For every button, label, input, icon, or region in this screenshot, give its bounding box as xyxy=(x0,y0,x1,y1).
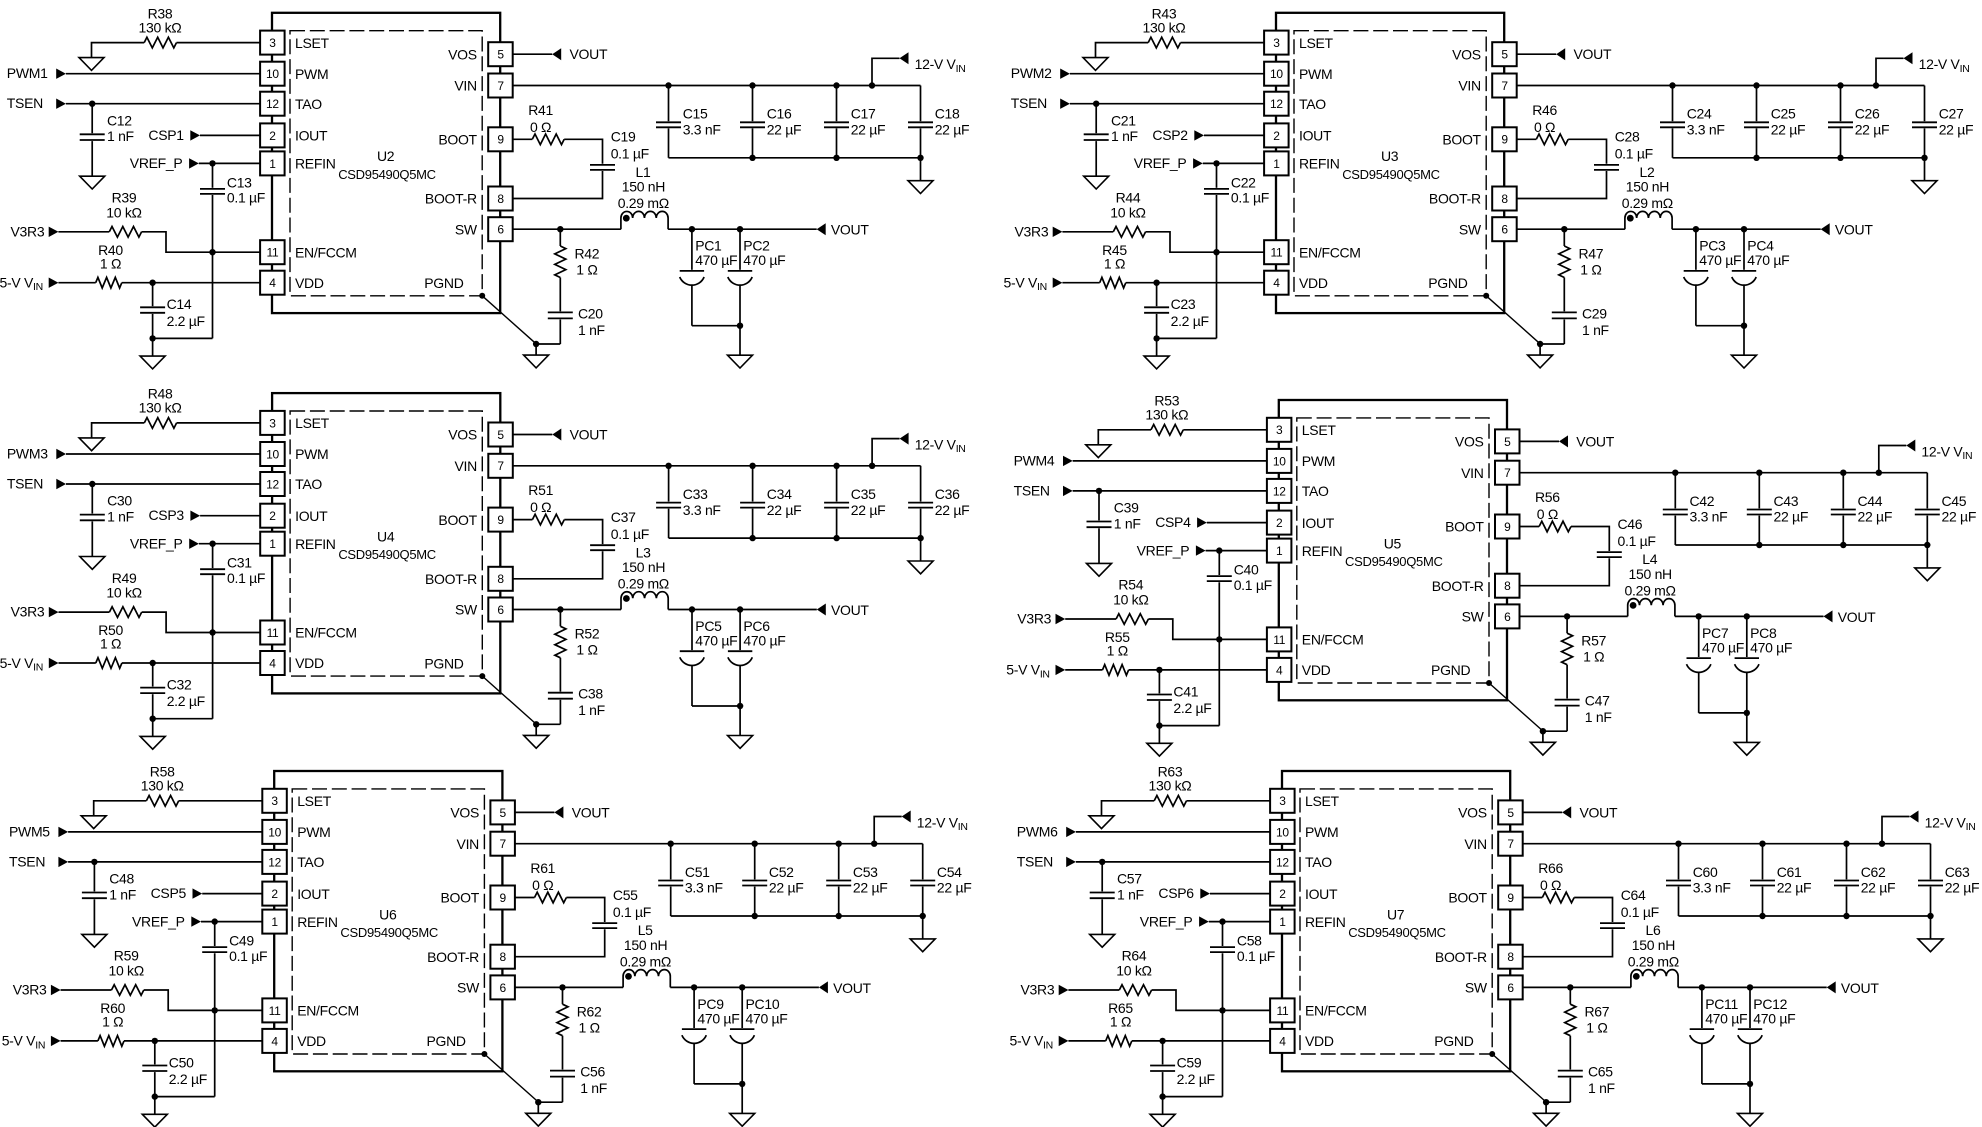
resistor R39 10 k&#937; xyxy=(106,190,141,238)
ground (PGND) xyxy=(524,724,549,748)
svg-text:VOUT: VOUT xyxy=(570,427,608,443)
svg-text:0 Ω: 0 Ω xyxy=(530,119,551,135)
svg-text:REFIN: REFIN xyxy=(297,914,338,930)
wire output cap ground link xyxy=(692,325,740,327)
ground (PGND) xyxy=(1534,1102,1559,1126)
resistor R61 0 &#937; xyxy=(530,860,566,903)
svg-text:10 kΩ: 10 kΩ xyxy=(1110,204,1145,220)
svg-text:11: 11 xyxy=(1276,1004,1288,1018)
port CSP6 xyxy=(1158,885,1210,901)
U5 pin 1 REFIN xyxy=(1267,539,1342,563)
capacitor C56 1 nF xyxy=(550,1036,607,1103)
capacitor C28 0.1 &#181;F xyxy=(1594,129,1653,170)
U3 pin 5 VOS xyxy=(1452,42,1517,66)
node VDD/C14 junction xyxy=(149,280,155,286)
svg-text:22 µF: 22 µF xyxy=(1861,880,1896,896)
capacitor C21 1 nF xyxy=(1084,104,1138,177)
svg-text:12: 12 xyxy=(266,97,279,111)
svg-text:4: 4 xyxy=(1276,663,1283,677)
capacitor C65 1 nF xyxy=(1558,1036,1615,1103)
wire C38 to PGND ground node xyxy=(536,723,560,725)
port VOUT (SW output) xyxy=(817,222,870,238)
svg-text:10: 10 xyxy=(268,825,281,839)
svg-text:R59: R59 xyxy=(114,948,139,964)
svg-text:BOOT-R: BOOT-R xyxy=(425,571,477,587)
svg-text:0.29 mΩ: 0.29 mΩ xyxy=(620,953,671,969)
svg-text:BOOT: BOOT xyxy=(1448,890,1487,906)
node C41 ground junction xyxy=(1156,722,1162,728)
svg-text:C28: C28 xyxy=(1615,129,1640,145)
svg-text:5: 5 xyxy=(1507,806,1514,820)
capacitor C45 22 uF xyxy=(1915,473,1976,545)
svg-text:VREF_P: VREF_P xyxy=(130,536,183,552)
svg-text:TSEN: TSEN xyxy=(1011,95,1047,111)
svg-text:0.29 mΩ: 0.29 mΩ xyxy=(1628,953,1679,969)
U6 pin 11 EN/FCCM xyxy=(262,998,359,1022)
wire IOUT net xyxy=(1204,134,1264,136)
U5 pin 2 IOUT xyxy=(1267,511,1335,535)
node SW/R67 junction xyxy=(1567,984,1573,990)
wire TAO net xyxy=(1076,861,1270,863)
U2 pin 6 SW xyxy=(455,217,513,241)
svg-text:SW: SW xyxy=(457,980,480,996)
wire VOS net xyxy=(513,53,552,55)
wire IOUT net xyxy=(1210,893,1270,895)
U7 pin 4 VDD xyxy=(1270,1029,1334,1053)
port VOUT (SW output) xyxy=(1827,980,1880,996)
capacitor C27 22 uF xyxy=(1912,86,1973,158)
U3 pin 2 IOUT xyxy=(1264,123,1332,147)
U5 pin 4 VDD xyxy=(1267,658,1331,682)
port 12-V VIN xyxy=(900,433,966,456)
port 5-V VIN xyxy=(1010,1033,1069,1052)
svg-text:PWM: PWM xyxy=(295,446,328,462)
svg-text:VIN: VIN xyxy=(457,836,479,852)
U4 pin 12 TAO xyxy=(260,472,322,496)
svg-text:C15: C15 xyxy=(683,106,708,122)
wire REFIN net xyxy=(1209,921,1270,923)
U2 pin 7 VIN xyxy=(454,74,512,98)
capacitor C52 22 uF xyxy=(742,844,803,916)
svg-text:4: 4 xyxy=(1273,276,1280,290)
node PGND corner junction xyxy=(1489,1051,1495,1057)
ground (LSET resistor) xyxy=(1089,816,1114,829)
port VREF_P xyxy=(132,913,201,929)
ground (C48) xyxy=(82,934,107,947)
svg-text:VIN: VIN xyxy=(1458,78,1480,94)
ground (VIN bypass C63) xyxy=(1918,916,1943,952)
ground (LSET resistor) xyxy=(79,58,104,71)
capacitor PC7 470 uF (polarized) xyxy=(1687,616,1745,713)
svg-text:IOUT: IOUT xyxy=(1299,128,1332,144)
wire PGND diagonal to ground xyxy=(484,1054,538,1102)
wire VIN bypass ground rail xyxy=(669,157,921,159)
svg-text:TAO: TAO xyxy=(295,96,322,112)
svg-text:R49: R49 xyxy=(112,570,137,586)
ground (PC2) xyxy=(728,326,753,368)
U5 pin PGND xyxy=(1431,662,1470,678)
svg-text:0.29 mΩ: 0.29 mΩ xyxy=(618,575,669,591)
node PGND corner junction xyxy=(1486,680,1492,686)
svg-text:L3: L3 xyxy=(636,544,651,560)
svg-text:470 µF: 470 µF xyxy=(1705,1010,1747,1026)
svg-text:4: 4 xyxy=(271,1034,278,1048)
U2 pin 5 VOS xyxy=(448,42,513,66)
svg-text:11: 11 xyxy=(267,626,279,640)
node SW output cap junctions xyxy=(1696,613,1751,619)
svg-text:6: 6 xyxy=(500,981,507,995)
resistor R46 0 &#937; xyxy=(1532,102,1568,145)
ground (LSET resistor) xyxy=(1083,58,1108,71)
svg-text:EN/FCCM: EN/FCCM xyxy=(295,625,357,641)
svg-text:CSP1: CSP1 xyxy=(148,127,184,143)
svg-text:5: 5 xyxy=(497,48,504,62)
node TSEN/C48 junction xyxy=(91,859,97,865)
svg-text:11: 11 xyxy=(269,1004,281,1018)
port TSEN xyxy=(1017,853,1076,869)
node PGND corner junction xyxy=(481,1051,487,1057)
svg-text:U6: U6 xyxy=(379,906,397,922)
svg-text:R47: R47 xyxy=(1579,245,1604,261)
svg-text:1 Ω: 1 Ω xyxy=(100,636,121,652)
svg-text:C33: C33 xyxy=(683,486,708,502)
svg-text:12: 12 xyxy=(266,477,279,491)
svg-text:22 µF: 22 µF xyxy=(937,880,972,896)
U5 pin 10 PWM xyxy=(1267,449,1335,473)
U3 pin 10 PWM xyxy=(1264,62,1332,86)
svg-text:1 nF: 1 nF xyxy=(580,1080,607,1096)
svg-text:C65: C65 xyxy=(1588,1064,1613,1080)
svg-text:C19: C19 xyxy=(611,129,636,145)
wire PGND diagonal to ground xyxy=(1492,1054,1546,1102)
svg-text:PWM4: PWM4 xyxy=(1014,452,1055,468)
resistor R49 10 k&#937; xyxy=(106,570,141,618)
svg-text:0.29 mΩ: 0.29 mΩ xyxy=(1625,582,1676,598)
svg-text:LSET: LSET xyxy=(1305,793,1340,809)
port TSEN xyxy=(1011,95,1070,111)
port VREF_P xyxy=(1137,542,1206,558)
svg-text:R39: R39 xyxy=(112,190,137,206)
wire VDD net (5-V via R45) xyxy=(1062,282,1264,284)
svg-text:BOOT: BOOT xyxy=(441,890,480,906)
svg-text:4: 4 xyxy=(269,656,276,670)
node REFIN/C49 junction xyxy=(212,918,218,924)
capacitor C39 1 nF xyxy=(1087,491,1141,564)
U6 pin 3 LSET xyxy=(262,789,331,813)
port VOUT (SW output) xyxy=(1821,222,1874,238)
U7 pin 11 EN/FCCM xyxy=(1270,998,1367,1022)
node ground rail junctions xyxy=(752,913,926,919)
svg-text:C47: C47 xyxy=(1585,693,1610,709)
svg-text:22 µF: 22 µF xyxy=(1855,122,1890,138)
wire C29 to PGND ground node xyxy=(1540,343,1564,345)
ground (PC8) xyxy=(1734,713,1759,755)
svg-text:470 µF: 470 µF xyxy=(1750,639,1792,655)
port 12-V VIN xyxy=(900,52,966,75)
wire C47 to PGND ground node xyxy=(1543,730,1567,732)
port 5-V VIN xyxy=(0,655,59,674)
svg-text:CSD95490Q5MC: CSD95490Q5MC xyxy=(338,167,436,182)
svg-text:C34: C34 xyxy=(767,486,792,502)
svg-text:V3R3: V3R3 xyxy=(13,982,47,998)
svg-text:C60: C60 xyxy=(1693,864,1718,880)
capacitor PC5 470 uF (polarized) xyxy=(680,610,738,707)
node VIN rail junctions xyxy=(1669,82,1879,88)
svg-text:TAO: TAO xyxy=(295,476,322,492)
svg-text:CSP6: CSP6 xyxy=(1158,885,1194,901)
svg-text:VDD: VDD xyxy=(297,1033,326,1049)
U7 pin 2 IOUT xyxy=(1270,882,1338,906)
svg-text:8: 8 xyxy=(497,192,504,206)
resistor R57 1 &#937; xyxy=(1562,616,1607,664)
svg-text:TAO: TAO xyxy=(1305,854,1332,870)
svg-text:BOOT-R: BOOT-R xyxy=(1435,949,1487,965)
svg-text:R54: R54 xyxy=(1118,577,1143,593)
port VREF_P xyxy=(1140,913,1209,929)
svg-text:C53: C53 xyxy=(853,864,878,880)
svg-text:TSEN: TSEN xyxy=(7,476,43,492)
capacitor C29 1 nF xyxy=(1552,278,1609,345)
wire VIN rail xyxy=(1520,446,1928,473)
capacitor C38 1 nF xyxy=(548,658,605,725)
resistor R67 1 &#937; xyxy=(1565,987,1610,1035)
svg-text:C16: C16 xyxy=(767,106,792,122)
svg-text:PWM2: PWM2 xyxy=(1011,65,1052,81)
svg-text:L4: L4 xyxy=(1642,551,1657,567)
IC U3 CSD95490Q5MC body xyxy=(1276,13,1504,313)
capacitor C51 3.3 nF xyxy=(658,844,723,916)
U3 pin 6 SW xyxy=(1459,217,1517,241)
port V3R3 xyxy=(1017,611,1065,627)
capacitor C62 22 uF xyxy=(1834,844,1895,916)
svg-text:0.29 mΩ: 0.29 mΩ xyxy=(618,195,669,211)
svg-text:1 Ω: 1 Ω xyxy=(1583,649,1604,665)
node VDD/C23 junction xyxy=(1153,280,1159,286)
ground (VIN bypass C18) xyxy=(908,158,933,194)
svg-text:3: 3 xyxy=(1273,36,1280,50)
node SW/R62 junction xyxy=(559,984,565,990)
svg-text:1 Ω: 1 Ω xyxy=(1580,261,1601,277)
svg-text:130 kΩ: 130 kΩ xyxy=(1145,407,1188,423)
capacitor PC6 470 uF (polarized) xyxy=(728,610,786,707)
svg-text:150 nH: 150 nH xyxy=(1629,566,1672,582)
ground (C41) xyxy=(1147,726,1172,757)
svg-text:U4: U4 xyxy=(377,529,395,545)
svg-text:9: 9 xyxy=(497,133,504,147)
wire C58 bottom link to C59 ground node xyxy=(1163,1096,1223,1098)
wire SW net xyxy=(513,228,817,230)
wire VIN bypass ground rail xyxy=(669,537,921,539)
svg-text:TAO: TAO xyxy=(1299,96,1326,112)
svg-text:CSP5: CSP5 xyxy=(151,885,187,901)
U3 pin 7 VIN xyxy=(1458,74,1516,98)
svg-text:130 kΩ: 130 kΩ xyxy=(139,400,182,416)
svg-text:12: 12 xyxy=(1276,855,1289,869)
U6 pin 4 VDD xyxy=(262,1029,326,1053)
svg-text:TSEN: TSEN xyxy=(7,95,43,111)
ground (PC4) xyxy=(1732,326,1757,368)
node PC4 ground junction xyxy=(1741,323,1747,329)
ground (C32) xyxy=(140,719,165,750)
resistor R43 130 k&#937; xyxy=(1143,5,1186,48)
ground (PGND) xyxy=(1528,344,1553,368)
node REFIN/C31 junction xyxy=(209,541,215,547)
node VIN rail junctions xyxy=(1675,841,1885,847)
capacitor C24 3.3 nF xyxy=(1660,86,1725,158)
node TSEN/C57 junction xyxy=(1099,859,1105,865)
svg-text:C59: C59 xyxy=(1177,1054,1202,1070)
node TSEN/C21 junction xyxy=(1093,101,1099,107)
svg-text:3.3 nF: 3.3 nF xyxy=(685,880,723,896)
resistor R64 10 k&#937; xyxy=(1116,948,1151,996)
wire BOOT net (pin 9 via R51 to C37) xyxy=(513,520,603,545)
IC U6 CSD95490Q5MC body xyxy=(274,771,502,1071)
svg-text:BOOT: BOOT xyxy=(1445,519,1484,535)
svg-text:BOOT: BOOT xyxy=(438,132,477,148)
node C14 ground junction xyxy=(149,335,155,341)
svg-text:C44: C44 xyxy=(1858,493,1883,509)
node ground rail junctions xyxy=(1759,913,1933,919)
svg-text:11: 11 xyxy=(1270,246,1282,260)
svg-text:8: 8 xyxy=(1501,192,1508,206)
capacitor C47 1 nF xyxy=(1555,665,1612,732)
capacitor C16 22 uF xyxy=(740,86,801,158)
svg-text:C22: C22 xyxy=(1231,174,1256,190)
svg-text:CSP2: CSP2 xyxy=(1152,127,1188,143)
ground (VIN bypass C36) xyxy=(908,538,933,574)
svg-text:PGND: PGND xyxy=(426,1033,465,1049)
port 5-V VIN xyxy=(1006,662,1065,681)
ground (C14) xyxy=(140,338,165,369)
node EN/FCCM C49 crossing junction xyxy=(212,1007,218,1013)
svg-text:PGND: PGND xyxy=(1431,662,1470,678)
port CSP2 xyxy=(1152,127,1204,143)
svg-text:9: 9 xyxy=(1507,891,1514,905)
capacitor C36 22 uF xyxy=(908,466,969,538)
svg-text:C36: C36 xyxy=(935,486,960,502)
svg-text:C49: C49 xyxy=(229,933,254,949)
svg-text:C23: C23 xyxy=(1171,296,1196,312)
converter phase block U5 xyxy=(1006,393,1976,756)
svg-text:3: 3 xyxy=(269,36,276,50)
capacitor C22 0.1 &#181;F xyxy=(1204,163,1269,338)
resistor R47 1 &#937; xyxy=(1559,229,1604,277)
svg-text:22 µF: 22 µF xyxy=(853,880,888,896)
svg-text:CSD95490Q5MC: CSD95490Q5MC xyxy=(1348,925,1446,940)
svg-text:REFIN: REFIN xyxy=(1302,543,1343,559)
svg-text:2: 2 xyxy=(1273,129,1280,143)
svg-text:C63: C63 xyxy=(1945,864,1970,880)
svg-text:8: 8 xyxy=(500,950,507,964)
wire TAO net xyxy=(66,103,260,105)
svg-text:R62: R62 xyxy=(577,1004,602,1020)
svg-text:PWM: PWM xyxy=(1305,824,1338,840)
wire IOUT net xyxy=(202,893,262,895)
port V3R3 xyxy=(1015,223,1063,239)
svg-text:22 µF: 22 µF xyxy=(1774,509,1809,525)
node PC6 ground junction xyxy=(737,703,743,709)
U7 pin 1 REFIN xyxy=(1270,910,1345,934)
ground (PGND) xyxy=(526,1102,551,1126)
port 12-V VIN xyxy=(902,811,968,834)
svg-text:2.2 µF: 2.2 µF xyxy=(169,1071,207,1087)
svg-text:3: 3 xyxy=(271,794,278,808)
port PWM4 xyxy=(1014,452,1073,468)
svg-text:22 µF: 22 µF xyxy=(769,880,804,896)
svg-text:470 µF: 470 µF xyxy=(697,1010,739,1026)
svg-text:BOOT-R: BOOT-R xyxy=(425,191,477,207)
wire EN/FCCM net (V3R3 via R54) xyxy=(1065,619,1267,639)
svg-text:VDD: VDD xyxy=(295,655,324,671)
capacitor C23 2.2 &#181;F xyxy=(1144,283,1209,339)
resistor R50 1 &#937; xyxy=(96,622,124,668)
U3 pin PGND xyxy=(1428,275,1467,291)
svg-text:470 µF: 470 µF xyxy=(1699,252,1741,268)
wire TAO net xyxy=(1070,103,1264,105)
wire SW net xyxy=(1517,228,1821,230)
wire PWM net xyxy=(68,831,262,833)
node C23 ground junction xyxy=(1153,335,1159,341)
node VDD/C50 junction xyxy=(152,1038,158,1044)
wire SW net xyxy=(1520,615,1824,617)
U3 pin 12 TAO xyxy=(1264,92,1326,116)
capacitor C35 22 uF xyxy=(824,466,885,538)
svg-text:22 µF: 22 µF xyxy=(1945,880,1980,896)
wire BOOT-R net xyxy=(513,171,603,199)
svg-text:470 µF: 470 µF xyxy=(695,252,737,268)
wire BOOT-R net xyxy=(1520,558,1610,586)
wire VDD net (5-V via R65) xyxy=(1068,1040,1270,1042)
svg-text:9: 9 xyxy=(500,891,507,905)
svg-text:3: 3 xyxy=(269,416,276,430)
svg-text:6: 6 xyxy=(1504,610,1511,624)
svg-text:470 µF: 470 µF xyxy=(695,632,737,648)
svg-text:C29: C29 xyxy=(1582,305,1607,321)
svg-text:2.2 µF: 2.2 µF xyxy=(167,313,205,329)
port VOUT (VOS sense) xyxy=(1562,804,1618,820)
svg-text:L1: L1 xyxy=(636,164,651,180)
svg-text:22 µF: 22 µF xyxy=(935,122,970,138)
svg-text:VOUT: VOUT xyxy=(833,980,871,996)
capacitor C48 1 nF xyxy=(82,862,136,935)
wire TAO net xyxy=(68,861,262,863)
wire EN/FCCM net (V3R3 via R49) xyxy=(59,612,261,632)
node VIN rail junctions xyxy=(1672,470,1882,476)
wire VIN rail xyxy=(515,817,923,844)
svg-text:C25: C25 xyxy=(1771,106,1796,122)
node ground rail junctions xyxy=(1753,155,1927,161)
svg-text:TAO: TAO xyxy=(1302,483,1329,499)
svg-text:R66: R66 xyxy=(1538,860,1563,876)
U4 pin 1 REFIN xyxy=(260,532,335,556)
inductor L3 150 nH 0.29 m&#937; xyxy=(618,544,669,609)
wire C40 bottom link to C41 ground node xyxy=(1159,725,1219,727)
svg-text:2.2 µF: 2.2 µF xyxy=(1177,1071,1215,1087)
svg-text:C24: C24 xyxy=(1687,106,1712,122)
wire EN/FCCM net (V3R3 via R39) xyxy=(58,232,260,252)
U6 pin 7 VIN xyxy=(457,832,515,856)
wire PWM net xyxy=(1076,831,1270,833)
svg-text:EN/FCCM: EN/FCCM xyxy=(1302,632,1364,648)
port VOUT (SW output) xyxy=(817,602,870,618)
svg-text:C21: C21 xyxy=(1111,112,1136,128)
svg-text:22 µF: 22 µF xyxy=(767,502,802,518)
svg-text:VREF_P: VREF_P xyxy=(132,913,185,929)
capacitor PC10 470 uF (polarized) xyxy=(730,987,788,1084)
node ground rail junctions xyxy=(749,155,923,161)
svg-text:470 µF: 470 µF xyxy=(743,632,785,648)
port VREF_P xyxy=(130,155,199,171)
